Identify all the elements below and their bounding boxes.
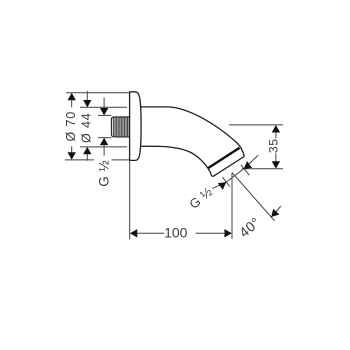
wire Ø44 top extension line <box>80 106 127 108</box>
svg-text:Ø 44: Ø 44 <box>80 112 94 143</box>
wire wall extension line <box>129 160 131 239</box>
node 40 degree ray <box>232 173 281 241</box>
wire outlet face thick line <box>208 148 240 169</box>
svg-text:100: 100 <box>164 224 188 240</box>
node Ø70 dimension <box>64 93 78 160</box>
diode shower arm body <box>139 107 244 176</box>
node 100 dimension <box>130 224 232 240</box>
node Ø44 dimension <box>80 91 94 161</box>
wire G1/2 bottom extension line <box>98 137 111 139</box>
capacitor thread G1/2 hatched nipple <box>111 117 129 137</box>
node G1/2 outlet dimension <box>186 155 258 212</box>
svg-text:G ½: G ½ <box>96 160 111 187</box>
svg-text:35: 35 <box>266 139 280 154</box>
wire Ø70 bottom extension line <box>65 159 94 161</box>
wire Ø70 top extension line <box>66 92 130 94</box>
wire vertical axis line <box>231 173 233 239</box>
svg-text:Ø 70: Ø 70 <box>64 111 78 142</box>
node G1/2 left dimension <box>96 98 111 187</box>
node 35 dimension <box>229 125 283 169</box>
wire Ø44 bottom extension line <box>80 146 127 148</box>
wire G1/2 top extension line <box>98 114 111 116</box>
resistor flange escutcheon <box>130 92 142 161</box>
